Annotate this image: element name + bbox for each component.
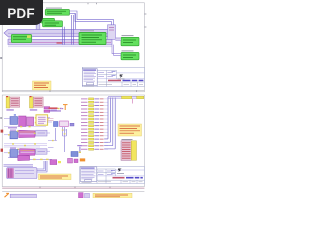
title block sheet 2 title text bbox=[113, 177, 143, 179]
L1 stripe bbox=[20, 133, 35, 135]
net label rows with pin boxes (right of center) bbox=[81, 98, 108, 150]
title block sheet 2 bbox=[80, 167, 145, 184]
block U3 label bbox=[80, 30, 94, 31]
red designator text bbox=[49, 107, 58, 109]
net label text (purple, below row 2) bbox=[8, 127, 17, 128]
note flag N4 (yellow strip sheet 3) bbox=[93, 193, 132, 198]
wire from module M1 bbox=[37, 161, 47, 172]
title block sheet 2 bottom small text bbox=[82, 181, 143, 184]
power flag F3 (orange arrow) bbox=[5, 193, 10, 197]
note flag N2 (yellow note right) bbox=[118, 124, 142, 136]
relay K1 (yellow-framed box) bbox=[35, 115, 49, 125]
wire L to U5 bbox=[112, 45, 121, 54]
junction dots row C bbox=[33, 159, 49, 160]
orange flag F2 bbox=[80, 158, 85, 161]
middle horizontal wire stubs bbox=[48, 130, 67, 148]
wire below row 2 bbox=[4, 126, 46, 128]
wire bbox=[37, 20, 39, 29]
block U2 (stacked pair) bbox=[41, 18, 63, 27]
title block sheet 1 cell text bbox=[98, 72, 113, 76]
junction dot bbox=[62, 108, 63, 109]
bus bottom stubs with red tips bbox=[104, 139, 115, 149]
capacitor C4 (small blue) bbox=[71, 152, 78, 157]
sheet 2 border frame bbox=[2, 95, 144, 188]
wire bbox=[115, 39, 121, 41]
capacitor C1 (blue) bbox=[10, 117, 18, 125]
resistor row A left red mark bbox=[1, 130, 4, 133]
top right wire with labels bbox=[108, 96, 144, 103]
wire bbox=[70, 13, 112, 24]
block U0 (green on bus, left) bbox=[11, 34, 31, 42]
title block sheet 2 cell text blue bbox=[111, 170, 115, 174]
title block sheet 1 logo bbox=[118, 74, 125, 79]
bus B magenta inner line bbox=[9, 41, 111, 43]
resistor row B left red mark bbox=[1, 149, 3, 152]
IC U6 (yellow pin bar + body) bbox=[6, 96, 20, 116]
bus joiner (left merge of bus A and B) bbox=[8, 37, 32, 39]
block U1 bbox=[45, 9, 69, 15]
block U5 bbox=[121, 52, 139, 59]
module M1 (bottom left, striped + lavender) bbox=[7, 168, 37, 179]
title block sheet 2 logo bbox=[117, 168, 124, 174]
wire row 2 bbox=[4, 118, 52, 122]
wire (faint below bus) bbox=[8, 46, 112, 48]
sheet 2 border ticks bbox=[0, 118, 110, 188]
PDF badge bbox=[0, 0, 43, 25]
sheet 3 top border bbox=[2, 191, 144, 193]
component cluster sheet 3 (purple marks) bbox=[79, 193, 90, 198]
note flag N1 (yellow note) bbox=[33, 81, 52, 90]
wire row C bbox=[8, 158, 52, 160]
net label text (purple, mid) bbox=[50, 110, 61, 111]
PDF badge text bbox=[0, 2, 42, 26]
junction dot bbox=[58, 108, 60, 109]
title block sheet 1 bbox=[82, 67, 144, 86]
net label text (purple) bbox=[50, 110, 57, 111]
sheet 1 bottom zone border double line bbox=[2, 89, 144, 91]
junction dot bbox=[60, 108, 61, 109]
wire bbox=[73, 15, 75, 45]
junction dots row A bbox=[8, 130, 36, 135]
wire bbox=[75, 13, 77, 29]
block U4 bbox=[121, 37, 139, 46]
designator text row A bbox=[10, 130, 16, 131]
bus A inner line bbox=[8, 32, 108, 34]
title block sheet 2 cell text bbox=[98, 171, 113, 175]
note flag N3 (yellow strip) bbox=[39, 174, 72, 180]
power flag F1 (orange) bbox=[63, 105, 68, 110]
block U4 label bbox=[122, 35, 134, 36]
inductor L3 (magenta body, row C) bbox=[18, 155, 30, 160]
connector J2 (lavender) bbox=[36, 130, 47, 136]
middle vertical wires bbox=[56, 127, 67, 152]
capacitor C2 (blue) bbox=[10, 132, 18, 139]
mid horizontal wires with junction dots bbox=[4, 144, 47, 147]
title block sheet 1 left info box bbox=[82, 69, 97, 86]
wire bundle C (verticals under badge into bus) bbox=[36, 20, 40, 29]
connector J1 (pin header, hatched body + yellow bar) bbox=[121, 141, 137, 161]
connector J1 label bbox=[122, 139, 133, 140]
junction dots row B bbox=[8, 149, 36, 154]
inductor L2 (magenta body) bbox=[20, 149, 36, 156]
wire K1 to C5 bbox=[48, 119, 54, 121]
sheet 1 outer border frame bbox=[2, 3, 144, 92]
misc parts row (magenta/yellow small) bbox=[50, 158, 85, 164]
title block sheet 1 title text (blue) bbox=[108, 80, 143, 82]
junction dots (mid) bbox=[52, 129, 65, 141]
wire (magenta drop) bbox=[132, 99, 134, 104]
page background bbox=[0, 0, 149, 198]
wire bundle A (verticals into bus) bbox=[62, 27, 64, 45]
block U3 bbox=[79, 32, 106, 44]
wire bbox=[39, 20, 41, 29]
L2 stripe bbox=[21, 151, 35, 153]
designator text row B bbox=[10, 148, 16, 149]
resistor cluster R2 (magenta outline, mid row 2) bbox=[60, 121, 74, 127]
block U5 label bbox=[122, 50, 134, 51]
wire row B stubs bbox=[4, 151, 50, 153]
wire row A stubs bbox=[4, 133, 50, 135]
sheet 2 bottom magenta keepout line bbox=[2, 187, 144, 189]
block U1 label bbox=[46, 8, 62, 9]
junction dots bbox=[12, 143, 36, 146]
IC U7 (yellow pin bar + body) bbox=[30, 96, 44, 111]
transformer T1 (magenta cluster) bbox=[19, 116, 34, 127]
bus segment sheet 3 (lavender bar) bbox=[10, 194, 36, 198]
wire sheet box to U4 (pale band) bbox=[115, 38, 121, 41]
connector J3 (lavender) bbox=[36, 149, 47, 154]
title block sheet 1 bottom small text bbox=[84, 84, 143, 86]
title block sheet 2 left info box bbox=[80, 167, 97, 182]
wire bundle B (verticals across bus) bbox=[72, 13, 76, 44]
bus A (upper lavender horizontal bus) bbox=[4, 29, 110, 36]
capacitor C3 (blue) bbox=[10, 150, 18, 158]
wire to module M1 bbox=[4, 165, 34, 166]
bus B lower faint stripe bbox=[8, 45, 112, 47]
resistor cluster R1 bbox=[44, 107, 50, 113]
title block sheet 1 cell text blue bbox=[112, 72, 116, 76]
inductor L1 (magenta body) bbox=[19, 130, 35, 137]
bus B (lower lavender horizontal bus) bbox=[8, 39, 112, 44]
capacitor C5 (blue, mid row 2) bbox=[54, 122, 59, 127]
sheet symbol box (bus right end) bbox=[108, 25, 116, 40]
wire U1 to bus right bbox=[70, 11, 114, 25]
wire bbox=[63, 27, 65, 45]
sheet 1 border tick marks bbox=[0, 3, 146, 92]
junction dots row 2 bbox=[20, 126, 31, 127]
junction cluster (purple/yellow) bbox=[77, 145, 82, 153]
vertical bus lines bbox=[108, 97, 115, 149]
net label text (red on bus) bbox=[57, 42, 63, 43]
wire bbox=[114, 45, 121, 56]
